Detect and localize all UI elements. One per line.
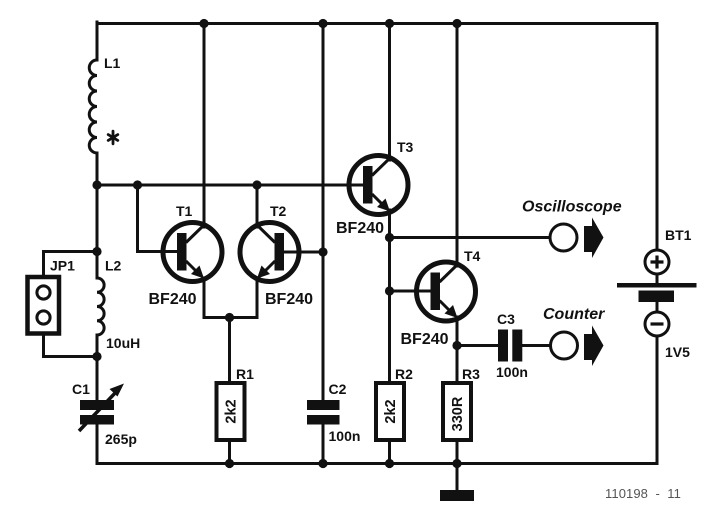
terminal Counter: [543, 306, 605, 366]
wire oscilloscope line: [390, 236, 551, 239]
svg-text:C1: C1: [72, 381, 90, 397]
svg-text:BF240: BF240: [336, 220, 384, 237]
svg-text:BF240: BF240: [149, 291, 197, 308]
svg-text:100n: 100n: [329, 428, 361, 444]
resistor R3: [443, 366, 480, 440]
wire C2 bottom lead: [322, 425, 325, 464]
wire T1 base branch: [138, 185, 179, 252]
svg-text:T2: T2: [270, 203, 287, 219]
svg-text:BF240: BF240: [265, 291, 313, 308]
svg-text:2k2: 2k2: [383, 399, 399, 423]
wire T4 collector: [456, 24, 459, 267]
svg-text:C3: C3: [497, 311, 515, 327]
wire counter line C3 right: [523, 344, 552, 347]
wire battery top lead: [656, 24, 659, 251]
wire left vertical L1 to L2: [96, 153, 99, 278]
svg-text:1V5: 1V5: [665, 344, 690, 360]
wire T2 emitter: [256, 278, 259, 318]
jumper JP1: [28, 258, 76, 334]
node bottom rail / R1: [225, 459, 234, 468]
svg-text:2k2: 2k2: [223, 399, 239, 423]
wire left vertical above L1: [96, 22, 99, 60]
svg-text:10uH: 10uH: [106, 335, 140, 351]
wire T3 emitter to R2: [388, 238, 391, 384]
svg-text:L1: L1: [104, 55, 121, 71]
node base rail / T2 collector: [252, 180, 261, 189]
svg-text:330R: 330R: [450, 396, 466, 431]
wire left vertical L2 to C1: [96, 335, 99, 400]
svg-text:R3: R3: [462, 366, 480, 382]
node bottom rail / R3 ground: [452, 459, 461, 468]
wire battery plate to minus: [656, 302, 659, 312]
node emitters / R1: [225, 313, 234, 322]
svg-text:L2: L2: [105, 258, 122, 274]
wire battery bottom lead: [656, 336, 659, 464]
svg-text:Counter: Counter: [543, 306, 605, 323]
wire T1 collector: [203, 24, 206, 228]
node top rail / C2 line: [318, 19, 327, 28]
node JP1 bottom: [92, 352, 101, 361]
label asterisk: [108, 131, 118, 144]
wire R2 bottom lead: [388, 440, 391, 464]
svg-text:JP1: JP1: [50, 258, 75, 274]
node bottom rail / R2: [385, 459, 394, 468]
wire T3 emitter: [388, 210, 391, 238]
ground: [440, 490, 474, 501]
transistor T1: [163, 223, 222, 282]
battery BT1: [617, 227, 697, 360]
wire battery plus to plate: [656, 274, 659, 283]
capacitor C3: [496, 311, 528, 380]
wire R1 top lead: [228, 318, 231, 384]
resistor R2: [376, 366, 413, 440]
svg-text:C2: C2: [329, 381, 347, 397]
wire T4 base: [390, 290, 432, 293]
node T4 emitter / counter: [452, 341, 461, 350]
wire T1 emitter: [203, 278, 206, 318]
node top rail / T4 collector: [452, 19, 461, 28]
node T3 emitter / oscilloscope: [385, 233, 394, 242]
node base rail / left vertical: [92, 180, 101, 189]
wire T2 base to C2 line: [284, 251, 323, 254]
terminal Oscilloscope: [522, 199, 622, 259]
wire base rail y=185: [96, 184, 363, 187]
capacitor C1 (variable): [72, 381, 137, 447]
svg-text:BT1: BT1: [665, 227, 692, 243]
node bottom rail / C2: [318, 459, 327, 468]
wire ground stub: [456, 464, 459, 491]
node top rail / T3 collector: [385, 19, 394, 28]
resistor R1: [217, 366, 255, 440]
wire counter line C3 left: [457, 344, 499, 347]
svg-text:BF240: BF240: [401, 331, 449, 348]
wire T2 collector: [256, 185, 259, 227]
svg-text:T3: T3: [397, 139, 414, 155]
wire T4 emitter to R3: [456, 346, 459, 384]
svg-text:R2: R2: [395, 366, 413, 382]
capacitor C2: [307, 381, 360, 444]
inductor L1: [89, 60, 97, 153]
wire JP1 branch top: [44, 252, 97, 287]
inductor L2: [97, 278, 104, 335]
node top rail / T1 collector: [199, 19, 208, 28]
svg-text:110198 - 11: 110198 - 11: [605, 486, 681, 501]
wire C2 vertical from top rail: [322, 24, 325, 401]
wire JP1 branch bottom: [44, 324, 97, 357]
svg-text:100n: 100n: [496, 364, 528, 380]
transistor T4: [417, 262, 476, 321]
wire T4 emitter: [456, 317, 459, 346]
wire R3 bottom lead: [456, 440, 459, 464]
svg-text:265p: 265p: [105, 431, 137, 447]
wire R1 bottom lead: [228, 440, 231, 464]
node base rail / T1 base branch: [133, 180, 142, 189]
svg-text:R1: R1: [236, 366, 254, 382]
svg-text:T1: T1: [176, 203, 193, 219]
wire bottom rail: [97, 425, 657, 464]
node T2 base / C2 line: [318, 247, 327, 256]
svg-text:T4: T4: [464, 248, 481, 264]
wire emitters join rail: [204, 316, 257, 319]
transistor T3: [349, 156, 408, 215]
node T4 base: [385, 286, 394, 295]
wire T3 collector: [388, 24, 391, 161]
transistor T2: [240, 223, 299, 282]
svg-text:Oscilloscope: Oscilloscope: [522, 199, 622, 216]
node JP1 top: [92, 247, 101, 256]
wire top rail: [97, 22, 657, 25]
